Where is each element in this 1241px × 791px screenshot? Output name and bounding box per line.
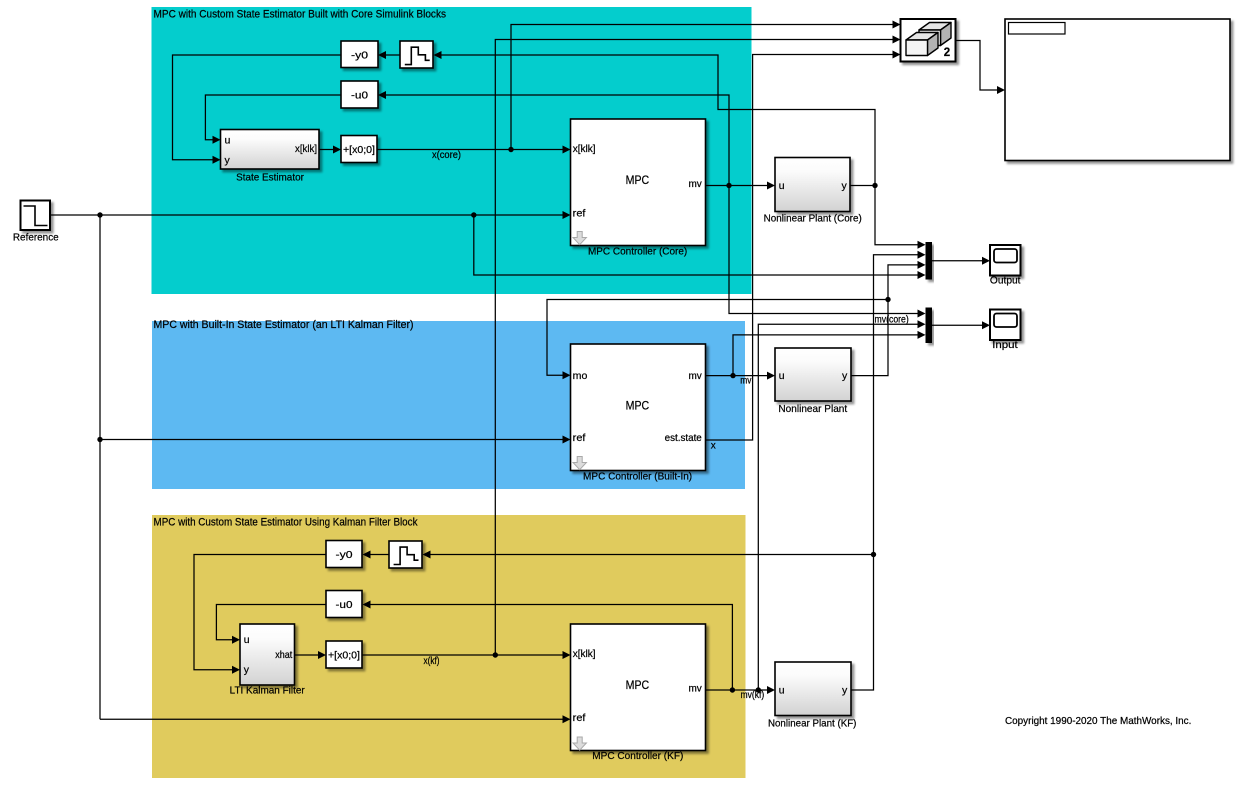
svg-text:MPC with Custom State Estimato: MPC with Custom State Estimator Built wi… xyxy=(154,9,447,21)
wire yellow -y0 to LTI KF y xyxy=(194,555,326,674)
block Memory yellow xyxy=(389,541,422,568)
svg-text:+[x0;0]: +[x0;0] xyxy=(343,144,375,156)
wire mv core to plant u xyxy=(706,182,776,190)
wire Input mux to Input scope xyxy=(932,321,990,329)
svg-text:-y0: -y0 xyxy=(351,50,368,62)
block gain -y0 yellow xyxy=(326,541,362,568)
block gain -u0 teal xyxy=(341,81,378,108)
svg-text:ref: ref xyxy=(573,207,586,219)
svg-text:MPC: MPC xyxy=(626,678,650,692)
wire x(core): +[x0;0] to MPC x[klk] xyxy=(377,146,571,154)
block gain -u0 yellow xyxy=(326,591,362,618)
node junction ref at x100 xyxy=(97,212,102,217)
node junction x(core) xyxy=(508,147,513,152)
svg-text:MPC Controller (Core): MPC Controller (Core) xyxy=(588,246,687,257)
wire x(kf) branch to concat in2 xyxy=(495,36,900,656)
wire mv core to -u0 xyxy=(378,91,729,186)
svg-text:mv: mv xyxy=(689,683,703,695)
svg-text:y: y xyxy=(842,684,848,696)
node junction mv kf 1 xyxy=(730,687,735,692)
svg-text:xhat: xhat xyxy=(275,649,292,661)
wire -y0 to State Estimator y xyxy=(173,55,342,164)
area yellow: MPC with Custom State Estimator Using Kalman Filter Block xyxy=(152,515,746,778)
wire yellow -u0 to LTI KF u xyxy=(216,605,326,644)
wire est.state to concat in3 xyxy=(706,51,901,441)
block Reference (step source) xyxy=(13,201,59,244)
svg-text:MPC: MPC xyxy=(626,173,650,187)
node junction plant KF y xyxy=(871,552,876,557)
svg-text:u: u xyxy=(779,180,785,192)
wire mv builtin to Input mux in3 xyxy=(733,331,926,376)
wire plant core y to Output mux in1 xyxy=(875,186,926,249)
block gain -y0 teal xyxy=(341,41,378,68)
block Display (big empty) xyxy=(1005,19,1230,161)
svg-text:u: u xyxy=(779,684,785,696)
svg-text:mv(kf): mv(kf) xyxy=(741,690,765,701)
wire -u0 to State Estimator u xyxy=(205,95,341,144)
area teal: MPC with Custom State Estimator Built with Core Simulink Blocks xyxy=(152,7,752,294)
node junction ref at x473.8 xyxy=(471,212,476,217)
svg-text:Nonlinear Plant: Nonlinear Plant xyxy=(778,404,847,415)
svg-text:u: u xyxy=(225,135,231,147)
svg-text:MPC: MPC xyxy=(626,398,650,412)
block Matrix Concatenate xyxy=(901,19,956,62)
svg-text:LTI Kalman Filter: LTI Kalman Filter xyxy=(230,685,306,696)
block State Estimator subsystem xyxy=(221,130,320,184)
svg-text:x[klk]: x[klk] xyxy=(295,143,317,155)
block Output mux xyxy=(926,242,933,280)
node junction mv core xyxy=(726,183,731,188)
wire plant core y feedback loop to Memory xyxy=(434,51,876,186)
wire mv kf to yellow -u0 xyxy=(363,601,733,691)
block MPC Controller (Built-In) xyxy=(571,344,706,482)
svg-text:ref: ref xyxy=(573,712,586,724)
wire Memory to -y0 xyxy=(378,51,400,59)
svg-text:est.state: est.state xyxy=(665,432,702,444)
block Output scope xyxy=(990,245,1021,287)
block LTI Kalman Filter xyxy=(230,624,306,696)
block Input mux xyxy=(926,308,933,344)
wire plant KF y to yellow Memory xyxy=(423,551,874,559)
svg-text:Reference: Reference xyxy=(13,232,59,243)
block Memory teal xyxy=(400,41,433,68)
wire x(kf): +[x0;0] to MPC KF x[klk] xyxy=(362,651,571,659)
wire builtin y to mo input xyxy=(547,300,888,380)
svg-text:y: y xyxy=(244,664,250,676)
svg-text:mv: mv xyxy=(740,376,751,387)
svg-text:x[klk]: x[klk] xyxy=(573,648,596,660)
area blue: MPC with Built-In State Estimator xyxy=(152,321,745,489)
wire plant builtin y to mux and mo loop xyxy=(851,261,926,376)
wire concat to Display xyxy=(956,41,1006,95)
svg-text:u: u xyxy=(779,370,785,382)
wire mv kf to Input mux in2 xyxy=(758,320,925,690)
svg-text:2: 2 xyxy=(944,47,950,59)
svg-text:mo: mo xyxy=(573,370,588,382)
svg-text:y: y xyxy=(842,370,848,382)
block Nonlinear Plant (KF) xyxy=(768,662,857,730)
wire mv kf to plant u xyxy=(706,686,776,694)
node junction mv builtin xyxy=(730,373,735,378)
svg-text:MPC with Custom State Estimato: MPC with Custom State Estimator Using Ka… xyxy=(154,517,418,529)
svg-text:-u0: -u0 xyxy=(336,599,353,611)
svg-text:y: y xyxy=(225,155,231,167)
svg-text:State Estimator: State Estimator xyxy=(236,172,304,183)
wire State Estimator x[klk] to +[x0;0] xyxy=(319,146,341,154)
wire plant KF y up to Output mux in2 xyxy=(851,251,926,690)
wire mv core to Input mux in1 xyxy=(729,186,926,318)
block Input scope xyxy=(990,310,1021,352)
svg-text:MPC with Built-In State Estima: MPC with Built-In State Estimator (an LT… xyxy=(154,319,414,331)
block bias +[x0;0] teal xyxy=(341,136,377,163)
svg-text:u: u xyxy=(244,634,250,646)
wire Output mux to Output scope xyxy=(932,257,990,265)
svg-text:Nonlinear Plant (Core): Nonlinear Plant (Core) xyxy=(764,213,862,224)
svg-text:mv: mv xyxy=(689,178,703,190)
svg-text:Output: Output xyxy=(990,276,1021,287)
block MPC Controller (Core) xyxy=(571,119,706,257)
wire reference to Output mux in4 xyxy=(474,215,926,279)
svg-text:Input: Input xyxy=(992,340,1018,351)
wire yellow Memory to -y0 xyxy=(363,551,390,559)
block Nonlinear Plant (middle) xyxy=(775,348,851,415)
node junction x(kf) xyxy=(493,652,498,657)
svg-text:x(kf): x(kf) xyxy=(424,656,440,667)
svg-text:x: x xyxy=(711,441,716,452)
wire Reference main xyxy=(50,211,571,219)
node junction plant core y xyxy=(872,183,877,188)
svg-text:y: y xyxy=(842,180,848,192)
block bias +[x0;0] yellow xyxy=(326,641,362,668)
svg-text:ref: ref xyxy=(573,432,586,444)
node junction mv kf 2 xyxy=(756,687,761,692)
node junction builtin y xyxy=(885,297,890,302)
wire xhat to +[x0;0] xyxy=(295,651,327,659)
svg-text:-y0: -y0 xyxy=(336,549,353,561)
svg-text:Nonlinear Plant (KF): Nonlinear Plant (KF) xyxy=(768,719,857,730)
svg-text:x(core): x(core) xyxy=(432,150,461,161)
svg-text:Copyright 1990-2020 The MathWo: Copyright 1990-2020 The MathWorks, Inc. xyxy=(1005,716,1191,727)
svg-text:mv: mv xyxy=(689,370,703,382)
block Nonlinear Plant (Core) xyxy=(764,158,862,225)
block MPC Controller (KF) xyxy=(571,624,706,762)
wire x(core) branch to concat in1 xyxy=(511,21,901,150)
svg-text:-u0: -u0 xyxy=(351,90,368,102)
svg-text:x[klk]: x[klk] xyxy=(573,143,596,155)
node junction ref blue row xyxy=(97,437,102,442)
svg-text:MPC Controller (Built-In): MPC Controller (Built-In) xyxy=(583,471,692,482)
wire ref down branch to blue and yellow ref xyxy=(100,215,571,723)
svg-text:MPC Controller (KF): MPC Controller (KF) xyxy=(592,751,683,762)
svg-text:+[x0;0]: +[x0;0] xyxy=(328,650,360,662)
wire mv builtin to plant u xyxy=(706,372,776,380)
